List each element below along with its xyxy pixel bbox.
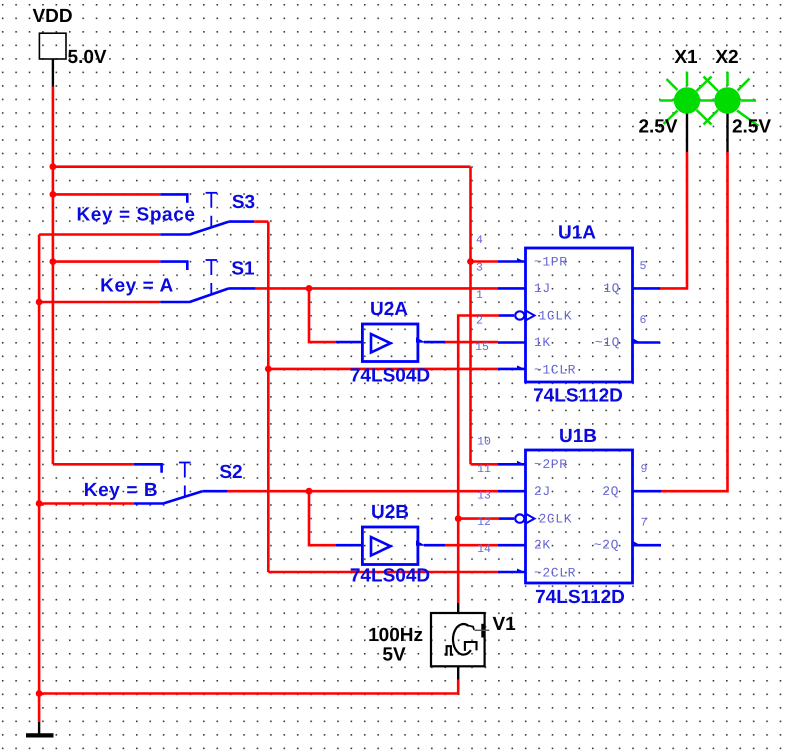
junction S3-top [50, 191, 57, 198]
junction ~1PR tap [467, 258, 474, 265]
svg-text:U2B: U2B [371, 502, 409, 523]
junction S1-bottom [36, 299, 43, 306]
wire S1 pole to 1J [256, 287, 498, 290]
junction S1-top [50, 258, 57, 265]
svg-text:5V: 5V [382, 645, 406, 666]
svg-text:~2Q: ~2Q [594, 538, 619, 553]
svg-text:Key = Space: Key = Space [76, 204, 195, 225]
flip-flop U1A (74LS112D) [498, 248, 660, 382]
svg-text:2: 2 [476, 314, 483, 327]
svg-text:2J: 2J [534, 484, 551, 499]
wire clock rail x=458 [458, 316, 499, 604]
svg-text:2CLK: 2CLK [539, 511, 573, 526]
clock source V1 [431, 603, 489, 680]
svg-text:15: 15 [475, 341, 489, 354]
svg-text:3: 3 [476, 262, 483, 275]
junction VDD-top [50, 163, 57, 170]
switch S2 (Key = B) [39, 463, 228, 504]
svg-text:10: 10 [477, 436, 491, 449]
svg-text:~2PR: ~2PR [534, 457, 568, 472]
wire U2A input drop [309, 288, 336, 342]
junction S2-bottom [36, 500, 43, 507]
wire ~1PR stub [471, 260, 499, 263]
junction bottom-left [36, 690, 43, 697]
wire V1 bottom riser [457, 680, 460, 694]
svg-text:S3: S3 [232, 192, 255, 213]
wire ground rail vertical x=39 [38, 235, 41, 723]
op-amp U2A (74LS04D inverter) [336, 324, 445, 362]
svg-text:5: 5 [640, 260, 647, 273]
svg-text:V1: V1 [493, 614, 517, 635]
svg-text:Key = A: Key = A [100, 275, 174, 296]
wire preset rail vertical x=470 [469, 167, 472, 465]
wire bottom horizontal to V1 [39, 692, 458, 695]
svg-text:U1B: U1B [559, 426, 597, 447]
wire 2Q to X2 [661, 152, 728, 491]
svg-text:6: 6 [640, 314, 647, 327]
svg-text:7: 7 [641, 517, 648, 530]
svg-text:13: 13 [477, 489, 491, 502]
svg-text:U2A: U2A [370, 299, 408, 320]
svg-text:X2: X2 [715, 47, 738, 68]
svg-text:1J: 1J [534, 281, 551, 296]
VDD power symbol [39, 33, 66, 86]
svg-text:100Hz: 100Hz [368, 625, 423, 646]
svg-text:~1PR: ~1PR [534, 254, 568, 269]
switch S1 (Key = A) [39, 260, 256, 302]
junction U2A input tap [306, 285, 313, 292]
junction 2CLK tap [455, 515, 462, 522]
ground [26, 722, 54, 735]
LED probe X2 [704, 72, 759, 152]
switch S3 (Key = Space) [39, 193, 268, 235]
wire top horizontal to preset rail [53, 165, 471, 168]
svg-text:5.0V: 5.0V [68, 47, 107, 68]
wire 1Q to X1 [660, 152, 687, 288]
svg-text:S2: S2 [219, 462, 242, 483]
wire VDD rail vertical x=53 [52, 87, 55, 465]
wire ~2PR stub [471, 463, 499, 466]
svg-text:4: 4 [476, 234, 483, 247]
wire U2B input drop [309, 491, 336, 545]
svg-text:1CLK: 1CLK [539, 308, 573, 323]
svg-text:~1CLR: ~1CLR [534, 362, 576, 377]
wire U2A output to 1K [445, 341, 498, 344]
junction ~1CLR tap [265, 366, 272, 373]
svg-text:1K: 1K [534, 335, 551, 350]
svg-text:~1Q: ~1Q [595, 335, 620, 350]
svg-text:2Q: 2Q [602, 484, 619, 499]
svg-text:VDD: VDD [32, 6, 72, 27]
svg-text:1Q: 1Q [603, 281, 620, 296]
wire S2 pole to 2J [228, 490, 498, 493]
svg-text:14: 14 [477, 543, 491, 556]
svg-text:U1A: U1A [558, 222, 596, 243]
svg-text:74LS112D: 74LS112D [535, 587, 625, 608]
op-amp U2B (74LS04D inverter) [336, 527, 445, 565]
svg-text:1: 1 [476, 289, 483, 302]
svg-text:74LS04D: 74LS04D [350, 565, 430, 586]
svg-text:2K: 2K [534, 538, 551, 553]
svg-text:2.5V: 2.5V [638, 116, 677, 137]
svg-text:11: 11 [477, 463, 491, 476]
wire ~2CLR horizontal [268, 571, 498, 574]
svg-text:S1: S1 [231, 258, 255, 279]
wire 2CLK stub [458, 517, 499, 520]
svg-text:~2CLR: ~2CLR [534, 565, 576, 580]
junction U2B input tap [306, 488, 313, 495]
svg-text:74LS04D: 74LS04D [350, 365, 430, 386]
svg-text:2.5V: 2.5V [732, 116, 771, 137]
flip-flop U1B (74LS112D) [498, 450, 661, 583]
svg-text:X1: X1 [674, 47, 698, 68]
LED probe X1 [660, 72, 715, 152]
svg-text:9: 9 [641, 463, 648, 476]
svg-text:74LS112D: 74LS112D [533, 385, 623, 406]
wire U2B output to 2K [445, 544, 498, 547]
wire ~1CLR horizontal [268, 368, 498, 371]
svg-text:12: 12 [477, 516, 491, 529]
wire S3 pole to CLR rail vertical x=268 [267, 222, 270, 572]
svg-text:Key = B: Key = B [84, 480, 158, 501]
